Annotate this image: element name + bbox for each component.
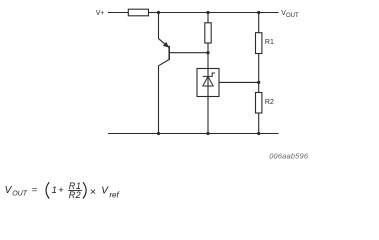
resistor R1 [256, 33, 262, 54]
resistor R2 [256, 93, 262, 114]
node R2 at ground rail [257, 132, 260, 135]
svg-text:V: V [101, 186, 109, 197]
zener triangle U1 [203, 76, 213, 86]
resistor series (V+) [128, 9, 148, 16]
svg-text:×: × [90, 186, 96, 198]
transistor Q1 emitter arrow [163, 42, 169, 48]
wire base lead Q1 [169, 52, 208, 54]
node top of bias resistor [206, 11, 209, 14]
svg-text:1: 1 [52, 185, 57, 196]
shunt regulator U1 box [197, 69, 219, 97]
wire right branch R1 R2 [258, 13, 260, 134]
node base / cathode [206, 51, 209, 54]
node V+ rail / emitter [157, 11, 160, 14]
svg-text:R2: R2 [69, 190, 81, 200]
wire collector lead Q1 [159, 60, 169, 134]
node top of R1 [257, 11, 260, 14]
equation VOUT=(1+R1/R2)xVref [5, 181, 120, 200]
node collector at ground rail [157, 132, 160, 135]
wire bottom rail [108, 133, 279, 135]
node reference / divider tap [257, 81, 260, 84]
wire top rail [108, 12, 279, 14]
svg-text:V+: V+ [96, 10, 105, 17]
svg-text:ref: ref [109, 191, 119, 200]
wire reference to divider [219, 81, 259, 83]
wire emitter lead Q1 [159, 13, 169, 48]
node anode at ground rail [206, 132, 209, 135]
svg-text:R2: R2 [265, 99, 274, 106]
svg-text:OUT: OUT [12, 191, 28, 198]
transistor Q1 base bar [168, 46, 170, 60]
svg-text:+: + [58, 185, 64, 196]
wire middle branch [207, 13, 209, 134]
svg-text:R1: R1 [265, 39, 274, 46]
svg-text:VOUT: VOUT [281, 10, 299, 19]
svg-text:006aab596: 006aab596 [269, 151, 309, 160]
resistor cathode bias [205, 23, 211, 43]
zener cathode bar U1 [203, 73, 216, 76]
svg-text:=: = [32, 185, 38, 196]
